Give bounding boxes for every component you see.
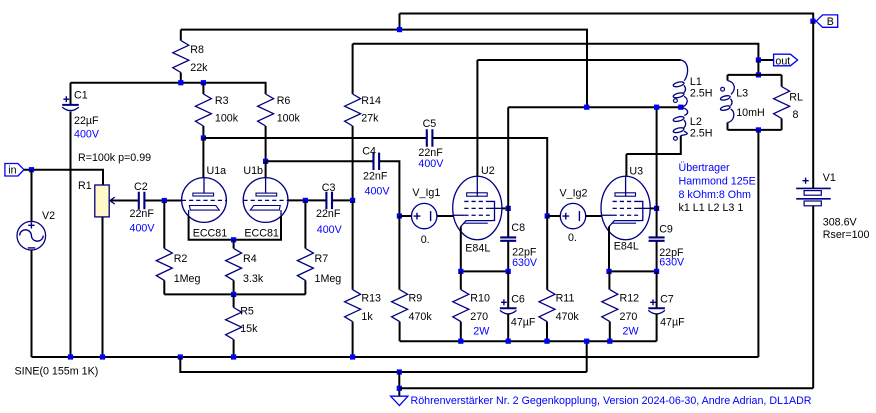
U1b cathode <box>250 206 280 211</box>
svg-text:100k: 100k <box>277 112 301 124</box>
wire to out port <box>758 59 773 61</box>
wire secondary bottom to ground rail <box>757 130 759 357</box>
junction R4 bottom / R5 top <box>231 292 236 297</box>
wire node to R11 <box>546 216 548 290</box>
wire R13 bottom lead <box>352 322 354 357</box>
svg-text:2W: 2W <box>473 326 490 338</box>
svg-text:400V: 400V <box>418 158 444 170</box>
wire C1 bottom lead to ground rail (crosses input wire) <box>70 112 72 358</box>
svg-text:R=100k p=0.99: R=100k p=0.99 <box>78 152 151 164</box>
wire U1b plate node to C4 <box>266 160 374 162</box>
junction B+ rail / top rail stub <box>397 27 402 32</box>
wire V_Ig2 to U3 grid <box>586 215 602 217</box>
behavioral voltage source V_Ig1 (current sense) <box>412 203 437 228</box>
wire B+ rail from R8 to centre-tap drop <box>181 30 587 108</box>
svg-text:R2: R2 <box>174 253 188 265</box>
junction secondary top <box>756 72 761 77</box>
wire divider node to R13 <box>352 200 354 289</box>
svg-text:R7: R7 <box>315 253 329 265</box>
svg-text:k1 L1 L2 L3 1: k1 L1 L2 L3 1 <box>679 202 744 214</box>
wire B2 rail (R8 bottom) to R6 top <box>71 83 266 94</box>
L3 phase dot <box>721 87 725 91</box>
junction C1 bottom <box>68 354 73 359</box>
U3 plate <box>625 176 627 196</box>
svg-text:R4: R4 <box>243 253 257 265</box>
wire C7 top lead <box>656 271 658 308</box>
L1 phase dot <box>674 99 678 103</box>
svg-text:ECC81: ECC81 <box>244 228 279 240</box>
svg-text:out: out <box>775 55 790 67</box>
wire L3 bottom lead <box>727 123 729 130</box>
wire R12 top lead <box>608 271 610 289</box>
wire cathode rail drop to lower ground rail <box>586 341 588 372</box>
wire node to R9 <box>398 216 400 290</box>
junction U1a plate node <box>201 135 206 140</box>
svg-text:10mH: 10mH <box>736 107 765 119</box>
svg-text:1k: 1k <box>361 311 373 323</box>
svg-text:R1: R1 <box>78 180 92 192</box>
junction V_Ig2 / R11 node <box>545 213 550 218</box>
triode tube U1a envelope <box>182 178 227 223</box>
junction U1b plate node <box>263 159 268 164</box>
svg-text:Hammond 125E: Hammond 125E <box>679 176 756 188</box>
wire U3 cathode lead <box>608 227 610 272</box>
wire stub top rail to B+ rail <box>399 14 401 30</box>
junction U2 screen node <box>506 206 511 211</box>
svg-text:47µF: 47µF <box>511 317 536 329</box>
wire node to V_Ig1 <box>399 215 411 217</box>
wire B+ to transformer centre tap and screens <box>508 106 681 108</box>
svg-text:L1: L1 <box>690 76 702 88</box>
junction U2 cathode / R10 <box>458 269 463 274</box>
U2 grids g1 g2 g3 (dashed) <box>464 200 490 202</box>
wire R10 bottom lead <box>460 322 462 342</box>
wire R11 bottom lead <box>546 322 548 342</box>
wire B+ top rail <box>400 14 814 22</box>
junction ground symbol column <box>397 369 402 374</box>
svg-text:0.: 0. <box>421 234 430 246</box>
svg-text:8 kOhm:8 Ohm: 8 kOhm:8 Ohm <box>679 189 752 201</box>
wire ground rail (middle) <box>32 356 759 358</box>
wire out node to secondary top <box>757 60 759 75</box>
wire input to R1 top <box>24 170 103 185</box>
wire feedback from R14 to output node <box>353 44 759 60</box>
wire R4 bottom lead <box>233 280 235 294</box>
U1a cathode <box>189 206 219 211</box>
svg-text:C6: C6 <box>511 294 525 306</box>
wire V1 minus down <box>812 206 814 388</box>
wire R3 bottom lead <box>202 126 204 138</box>
resistor R5 <box>226 308 242 340</box>
junction U1a grid node <box>162 198 167 203</box>
capacitor C1 (polarized 22uF) <box>62 104 79 106</box>
wire R10 top lead <box>460 271 462 289</box>
wire R12 bottom lead <box>609 322 611 342</box>
wire grid node to R2 <box>163 201 165 249</box>
svg-text:22nF: 22nF <box>363 170 388 182</box>
svg-text:Röhrenverstärker Nr. 2 Gegenko: Röhrenverstärker Nr. 2 Gegenkopplung, Ve… <box>411 395 812 407</box>
svg-text:R12: R12 <box>620 293 640 305</box>
wire L2 bottom to U3 plate <box>626 136 680 155</box>
svg-text:in: in <box>8 165 16 177</box>
ground symbol <box>391 396 408 405</box>
wire U1a/U1b cathodes to R4 <box>189 216 281 240</box>
svg-text:E84L: E84L <box>614 241 639 253</box>
resistor R4 <box>226 248 242 280</box>
junction R8 bottom <box>178 80 183 85</box>
junction B port / V1 column <box>810 19 815 24</box>
svg-text:R5: R5 <box>240 305 254 317</box>
wire R4 top lead <box>233 240 235 249</box>
wire R9 bottom lead <box>399 322 401 342</box>
junction V_Ig1 / R9 node <box>397 213 402 218</box>
svg-text:400V: 400V <box>130 223 156 235</box>
U1b grid (dashed) <box>243 199 287 201</box>
capacitor C9 <box>649 237 665 240</box>
wire U2 plate to output transformer L1 <box>476 60 478 176</box>
U3 cathode <box>609 221 640 227</box>
svg-text:308.6V: 308.6V <box>823 216 858 228</box>
wire R2 bottom lead <box>163 280 165 294</box>
potentiometer R1 <box>95 185 109 217</box>
resistor R6 <box>258 94 274 126</box>
wire to port B <box>813 20 816 22</box>
junction U3 cathode / R12 <box>606 269 611 274</box>
svg-text:270: 270 <box>470 311 488 323</box>
svg-text:V_Ig2: V_Ig2 <box>560 187 588 199</box>
wire B node down to V1 plus <box>812 21 814 188</box>
wire C5 to V_Ig2 / R11 node <box>432 138 547 216</box>
resistor R10 <box>453 290 469 322</box>
junction U1b grid / R7 node <box>303 198 308 203</box>
wire R5 bottom lead <box>233 340 235 358</box>
wire RL bottom lead <box>781 119 783 130</box>
svg-text:E84L: E84L <box>465 243 490 255</box>
wire C1 top lead <box>70 83 72 105</box>
svg-text:R10: R10 <box>470 293 490 305</box>
U3 suppressor tie to cathode <box>638 201 643 220</box>
junction C9 / C7 <box>654 269 659 274</box>
svg-text:Rser=100: Rser=100 <box>823 229 870 241</box>
junction ground drop top <box>584 339 589 344</box>
resistor R3 <box>195 94 211 126</box>
junction R12 bottom <box>607 339 612 344</box>
wire R8 top lead <box>180 30 182 41</box>
wire C6 bottom lead <box>507 314 509 341</box>
wire U2 screen stub <box>502 207 508 209</box>
junction U3 screen node <box>654 206 659 211</box>
pentode tube U2 envelope <box>453 176 502 240</box>
voltage source V1 (battery) <box>803 178 809 184</box>
wire U1b grid node to R7 <box>304 200 306 248</box>
wire L3 top lead <box>727 75 729 81</box>
svg-text:SINE(0 155m 1K): SINE(0 155m 1K) <box>15 366 99 378</box>
wire secondary top rail <box>728 74 782 76</box>
svg-text:2W: 2W <box>623 326 640 338</box>
wire U1b grid to C3 <box>288 199 326 201</box>
svg-text:ECC81: ECC81 <box>193 228 228 240</box>
junction R11 bottom <box>544 339 549 344</box>
svg-text:U1b: U1b <box>243 165 263 177</box>
svg-text:C7: C7 <box>660 294 674 306</box>
wire C3 to feedback divider node <box>333 199 353 201</box>
wire R1 wiper to C2 <box>111 200 138 202</box>
port out <box>774 54 798 66</box>
junction C6 bottom <box>506 339 511 344</box>
resistor R7 <box>297 248 313 280</box>
resistor R11 <box>539 290 555 322</box>
svg-text:47µF: 47µF <box>660 317 685 329</box>
svg-text:R13: R13 <box>361 293 381 305</box>
U3 grids g1 g2 g3 (dashed) <box>613 200 639 202</box>
wire R14 top lead from feedback wire <box>352 44 354 94</box>
wire node to V_Ig2 <box>547 215 560 217</box>
svg-text:0.: 0. <box>568 232 577 244</box>
wire R14 bottom to feedback divider node <box>352 126 354 200</box>
capacitor C3 <box>326 192 332 209</box>
wire U1a plate lead <box>202 138 204 178</box>
wire cathode ground rail (R9..C7) <box>400 340 657 342</box>
svg-text:2.5H: 2.5H <box>690 87 713 99</box>
svg-text:R8: R8 <box>190 44 204 56</box>
capacitor C8 <box>500 237 516 240</box>
wire V_Ig1 to U2 grid <box>437 215 454 217</box>
inductor L2 (primary bottom) <box>681 107 688 135</box>
svg-text:V1: V1 <box>823 172 836 184</box>
behavioral voltage source V_Ig2 (current sense) <box>560 203 585 228</box>
voltage source V2 (sine input) <box>17 221 46 250</box>
svg-text:22nF: 22nF <box>130 208 155 220</box>
svg-text:R3: R3 <box>215 95 229 107</box>
svg-text:400V: 400V <box>74 129 100 141</box>
inductor L3 (secondary) <box>728 81 735 123</box>
resistor R2 <box>156 248 172 280</box>
svg-text:B: B <box>827 16 834 28</box>
junction out port tap <box>756 57 761 62</box>
capacitor C5 <box>427 129 433 146</box>
wire R7 bottom lead <box>304 280 306 294</box>
svg-text:Übertrager: Übertrager <box>679 162 731 174</box>
svg-text:400V: 400V <box>317 224 343 236</box>
resistor R9 <box>392 290 408 322</box>
wire C7 bottom lead <box>656 314 658 341</box>
wire U2 plate to L1 top <box>477 59 680 61</box>
svg-text:2.5H: 2.5H <box>690 127 713 139</box>
pentode tube U3 envelope <box>601 176 650 240</box>
wire U2 cathode lead <box>460 227 462 272</box>
svg-text:470k: 470k <box>409 311 433 323</box>
resistor R13 <box>345 290 361 322</box>
junction C8 / C6 <box>506 269 511 274</box>
svg-text:R6: R6 <box>277 95 291 107</box>
junction B+ drop on tap wire <box>584 105 589 110</box>
svg-text:22nF: 22nF <box>316 208 341 220</box>
svg-text:C3: C3 <box>322 182 336 194</box>
svg-text:630V: 630V <box>659 257 685 269</box>
svg-text:R11: R11 <box>556 293 575 305</box>
junction common cathode node <box>231 237 236 242</box>
wire RL top lead <box>781 75 783 87</box>
triode tube U1b envelope <box>243 178 288 223</box>
svg-text:470k: 470k <box>556 311 580 323</box>
svg-text:22k: 22k <box>190 62 208 74</box>
wire U3 cathode to C9/C7 column <box>609 270 657 272</box>
port in <box>5 164 24 177</box>
wire U3 plate lead <box>625 154 627 176</box>
wire C8 bottom to cathode node <box>507 241 509 271</box>
wire V2 minus to ground rail <box>31 250 33 357</box>
svg-text:L3: L3 <box>736 88 748 100</box>
svg-text:V2: V2 <box>42 210 55 222</box>
capacitor C7 (polarized 47uF) <box>648 307 665 309</box>
wire U1b plate lead <box>265 161 267 178</box>
svg-text:8: 8 <box>793 109 799 121</box>
svg-text:U1a: U1a <box>207 165 227 177</box>
U2 suppressor tie to cathode <box>490 201 495 220</box>
resistor R14 <box>345 94 361 126</box>
wire cathode-return rail R2/R4/R7/R5 <box>164 293 305 295</box>
resistor R8 <box>173 41 189 73</box>
svg-text:C9: C9 <box>659 224 673 236</box>
svg-text:270: 270 <box>620 311 638 323</box>
svg-text:22µF: 22µF <box>74 115 99 127</box>
svg-text:RL: RL <box>789 92 803 104</box>
wire R6 bottom to U1b plate node (crosses C5 wire) <box>265 126 267 161</box>
capacitor C6 (polarized 47uF) <box>500 307 517 309</box>
svg-text:100k: 100k <box>215 112 239 124</box>
svg-text:C5: C5 <box>423 118 437 130</box>
wire lower ground rail <box>180 357 586 372</box>
svg-text:15k: 15k <box>240 323 258 335</box>
junction R5 bottom <box>231 354 236 359</box>
capacitor C2 <box>139 192 145 209</box>
wire to ground symbol <box>398 372 400 396</box>
svg-text:U3: U3 <box>629 166 643 178</box>
svg-text:1Meg: 1Meg <box>315 273 342 285</box>
svg-text:3.3k: 3.3k <box>243 273 264 285</box>
wire R5 top lead <box>233 294 235 307</box>
U2 plate <box>476 176 478 196</box>
junction V1 return <box>397 386 402 391</box>
svg-text:C1: C1 <box>74 90 88 102</box>
svg-text:R14: R14 <box>361 95 381 107</box>
junction R13 bottom <box>350 354 355 359</box>
wire R8 bottom lead <box>180 73 182 83</box>
svg-text:1Meg: 1Meg <box>174 273 201 285</box>
junction R3 top <box>201 80 206 85</box>
svg-text:630V: 630V <box>512 257 538 269</box>
capacitor C4 <box>374 153 380 170</box>
wire C4 to V_Ig1 / R9 node <box>379 161 399 216</box>
svg-text:27k: 27k <box>361 112 379 124</box>
svg-text:C8: C8 <box>511 222 525 234</box>
wire U1a plate node to C5 <box>203 137 426 139</box>
wire input node to V2 plus <box>31 170 33 222</box>
svg-text:V_Ig1: V_Ig1 <box>412 187 440 199</box>
svg-text:L2: L2 <box>690 116 702 128</box>
svg-text:R9: R9 <box>409 293 423 305</box>
wire U2 cathode to C8/C6 column <box>461 270 508 272</box>
wire U3 screen column from tap wire to C9 <box>656 107 658 237</box>
resistor RL <box>774 87 790 119</box>
wire V1 minus return <box>399 387 813 389</box>
junction R10 bottom <box>458 339 463 344</box>
wire R1 bottom lead to ground rail <box>102 217 104 357</box>
svg-text:C4: C4 <box>362 146 376 158</box>
U1b plate <box>265 178 267 193</box>
junction secondary bottom <box>756 127 761 132</box>
wire C9 bottom to cathode node <box>656 241 658 271</box>
U1a grid (dashed) <box>182 199 226 201</box>
wire C6 top lead <box>507 271 509 308</box>
svg-text:400V: 400V <box>365 186 391 198</box>
junction U3 screen column on tap wire <box>654 105 659 110</box>
L2 phase dot <box>674 137 678 141</box>
U1a plate <box>203 178 205 193</box>
svg-text:C2: C2 <box>134 181 148 193</box>
junction input node <box>29 167 34 172</box>
junction ground-drop <box>178 354 183 359</box>
wire R3 top lead <box>202 83 204 94</box>
wire secondary bottom rail <box>728 129 782 131</box>
port B <box>816 15 838 27</box>
inductor L1 (primary top) <box>681 60 688 107</box>
wire U2 screen column to B+ tap wire <box>507 107 509 237</box>
resistor R12 <box>602 290 618 322</box>
svg-text:U2: U2 <box>481 165 495 177</box>
junction feedback divider node (R14/R13/C3) <box>350 198 355 203</box>
wire C2 to U1a grid <box>145 200 182 202</box>
U2 cathode <box>461 221 492 227</box>
wire U3 screen stub <box>650 207 656 209</box>
junction R1 bottom <box>100 354 105 359</box>
junction transformer centre tap <box>678 105 683 110</box>
